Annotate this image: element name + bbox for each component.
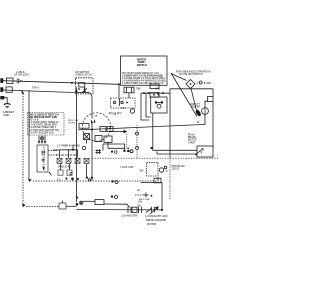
wire drop at 119 — [118, 84, 120, 97]
node junction A — [71, 82, 73, 84]
wire double line 1 — [153, 113, 197, 150]
lid switch S1 — [76, 78, 94, 94]
svg-text:34B: 34B — [156, 88, 161, 91]
label unbalance note — [176, 70, 211, 76]
bottom left box — [59, 203, 66, 209]
wire loop right — [141, 183, 162, 210]
water temp rows — [122, 72, 166, 85]
svg-text:LEVEL: LEVEL — [68, 122, 76, 124]
wire double line 2 — [157, 152, 197, 155]
X box row 3 — [75, 158, 80, 163]
svg-text:‡ 1974 UNIT: ‡ 1974 UNIT — [120, 166, 134, 169]
wire b2 stub — [107, 142, 109, 148]
svg-text:SWITCH: SWITCH — [137, 64, 147, 67]
label 10 — [197, 121, 200, 124]
wire box to cluster — [66, 205, 77, 207]
svg-text:B STR: B STR — [204, 82, 211, 85]
wire stub v3 — [77, 150, 79, 158]
timer cluster circle — [130, 109, 134, 113]
terminal T1 — [0, 78, 3, 83]
label 2B — [95, 116, 98, 118]
unbalance diagonal 2 — [172, 74, 187, 81]
label 2A — [137, 189, 140, 192]
interlock box — [197, 146, 213, 157]
node dot valve2 — [148, 92, 150, 94]
wire thermal stub — [128, 93, 130, 98]
label 1B — [114, 114, 117, 116]
X box row 1 — [57, 158, 62, 163]
svg-text:MOTOR SW: MOTOR SW — [172, 166, 186, 168]
X box row 2 — [66, 158, 71, 163]
node dot dl1 — [150, 147, 152, 149]
label max — [190, 103, 200, 109]
wire bottom rail lower — [77, 209, 163, 211]
node apex dot — [171, 73, 173, 75]
svg-text:2817529: 2817529 — [147, 224, 157, 226]
node L1 label — [14, 70, 29, 77]
wire motor feed — [205, 101, 208, 124]
wire motor box dashed right — [48, 151, 57, 156]
svg-text:7-8 OFF BUZZER (2A): 7-8 OFF BUZZER (2A) — [29, 131, 54, 134]
svg-text:EA: EA — [140, 170, 144, 173]
fuse F2 — [6, 87, 12, 92]
label b — [166, 169, 168, 173]
terminal block pressure — [79, 124, 89, 129]
wire branch arrow — [109, 130, 127, 149]
wire long vertical left — [76, 87, 78, 203]
water temp legend box — [121, 56, 168, 85]
fuse F1 — [7, 78, 14, 83]
label motor block — [188, 135, 197, 145]
junction pair left — [111, 151, 117, 154]
arrow ground hook 2 — [22, 203, 26, 207]
arrow console — [28, 179, 32, 183]
X box row 4 — [84, 158, 89, 163]
wire bottom rail upper — [83, 200, 95, 202]
wire console dashed bottom — [33, 180, 158, 182]
wire valve rail segment — [141, 92, 170, 94]
switch box mid2 — [107, 127, 113, 132]
relay box right — [208, 97, 214, 102]
valve coil dots — [153, 94, 159, 96]
wire lid sw to pressure — [85, 87, 92, 119]
wire cabinet dashed — [92, 157, 218, 159]
junction pair 2 — [86, 177, 93, 182]
wire right edge vert — [212, 102, 214, 147]
wire tick at 158 — [157, 177, 159, 181]
node dot 76 — [75, 90, 77, 92]
diag mark — [49, 172, 52, 176]
node dot valve1 — [143, 92, 145, 94]
junction trio c — [111, 195, 118, 198]
svg-text:OF THE UNIT SWITCH: OF THE UNIT SWITCH — [179, 74, 203, 76]
svg-text:PUSH: PUSH — [188, 135, 195, 137]
label diamond — [197, 82, 199, 85]
label center top rows — [57, 145, 80, 148]
label cabinet ground — [3, 110, 15, 117]
label TM8 — [136, 89, 141, 91]
node dot mid — [91, 129, 93, 131]
wire xbox stub — [86, 140, 88, 144]
label 226 — [137, 205, 142, 207]
wire stub v7 — [102, 144, 104, 151]
node dot mid2 — [109, 128, 111, 130]
svg-text:TM8: TM8 — [136, 89, 141, 91]
bottom relay box — [95, 200, 104, 205]
pressure switch circle — [82, 113, 110, 141]
motor connector box — [37, 145, 48, 172]
node dot 84 — [84, 90, 86, 92]
svg-text:MOTOR: MOTOR — [188, 140, 197, 142]
wire stub v6 — [86, 164, 88, 177]
diamond circle — [199, 81, 202, 84]
overload protector blob — [195, 109, 202, 117]
wire mid horizontal — [78, 124, 205, 129]
svg-text:(VIEW LATCH): (VIEW LATCH) — [76, 74, 92, 77]
wire bottom rail upper2 — [104, 204, 130, 208]
label small k — [57, 180, 61, 182]
label center row2 — [56, 154, 76, 157]
wire tick box — [62, 201, 64, 204]
label diamond B — [204, 82, 211, 85]
svg-text:(I): (I) — [200, 151, 203, 154]
water valve box — [151, 97, 167, 113]
junction trio b — [111, 180, 118, 183]
component box b2 — [104, 136, 112, 142]
water temp title — [137, 58, 147, 67]
label 164 — [138, 202, 143, 204]
small box on loop — [154, 178, 161, 183]
label awg — [121, 215, 138, 218]
wire stub v5 — [69, 164, 71, 170]
wire stub v4 — [60, 164, 62, 170]
squiggle mark — [127, 148, 133, 153]
label timer cluster — [109, 112, 123, 115]
label wht — [139, 198, 150, 201]
label TM — [32, 86, 39, 90]
arrow ground hook 1 — [21, 91, 24, 95]
wire console left vertical — [28, 90, 30, 178]
node junction B — [118, 83, 120, 85]
contact pressure switch — [91, 119, 96, 130]
wire stub v1 — [59, 150, 61, 158]
wire green ground dashed — [22, 91, 59, 206]
label 1974 — [120, 166, 134, 169]
wire drop x92 — [91, 130, 93, 181]
label right rows — [172, 166, 186, 171]
wh box 1 — [150, 84, 159, 88]
unbalance diagonal 3 — [191, 89, 198, 115]
label lid switch — [75, 71, 92, 77]
wire loop top — [103, 144, 125, 150]
component box b1 — [95, 136, 102, 142]
legend rows console — [29, 113, 59, 134]
ground cabinet — [0, 96, 10, 108]
legend box console — [28, 113, 65, 136]
mid cluster box — [147, 163, 167, 177]
terminal T2 — [0, 87, 3, 92]
svg-text:(2817): (2817) — [172, 169, 179, 171]
relay box row b1 — [58, 170, 63, 175]
water valve loops — [141, 93, 151, 120]
label under boxes — [58, 166, 72, 169]
wire right vert 170 — [169, 89, 171, 157]
connector pins J1 — [38, 136, 46, 145]
label pressure switch — [68, 120, 79, 125]
switch box mid1 — [100, 127, 106, 132]
node dot rail r1 — [157, 92, 159, 94]
wire top rail left — [3, 81, 119, 85]
label motor wiring — [145, 215, 168, 226]
wire stub v2 — [68, 150, 70, 158]
plug P1 — [15, 79, 23, 83]
unbalance diagonal 1 — [172, 74, 198, 117]
wire bottom rail — [3, 90, 88, 93]
junction pair 1 — [65, 173, 79, 181]
connector ticks bottom — [128, 207, 142, 213]
motor arrow assembly — [146, 206, 159, 214]
wire upper right segment — [170, 89, 213, 97]
label 2-5A — [121, 107, 126, 110]
connector ticks mid — [96, 149, 102, 154]
timer diamond — [186, 80, 195, 89]
label EA — [140, 170, 144, 173]
junction trio a — [123, 150, 133, 153]
node dot loop — [161, 209, 163, 211]
node dot rail r2 — [162, 92, 164, 94]
thermal box — [124, 87, 134, 93]
relay box row b2 — [67, 170, 72, 175]
wh box 2 — [150, 93, 159, 98]
motor start circle — [202, 108, 209, 115]
wire loop mid — [108, 147, 125, 149]
wire mid link — [53, 145, 86, 151]
connector dashed vertical — [136, 125, 139, 158]
wire right vert 170 dashed — [169, 157, 171, 200]
bottom junction cluster — [76, 197, 83, 206]
mid dashes cluster — [135, 193, 152, 198]
start contact — [195, 148, 203, 155]
svg-text:WTR CHG: WTR CHG — [68, 120, 79, 122]
label 34B — [156, 88, 161, 91]
below-circle X box — [84, 134, 90, 140]
svg-text:HELPER: HELPER — [191, 107, 200, 109]
timer cluster box — [111, 98, 136, 108]
